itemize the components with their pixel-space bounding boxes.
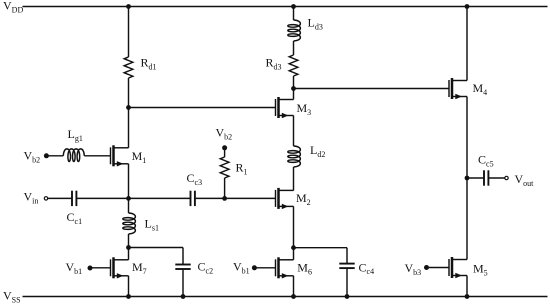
terminal dot Vb3 — [424, 265, 429, 270]
wire M7 drain to node C — [128, 248, 130, 260]
svg-text:Cc4: Cc4 — [359, 260, 375, 276]
wire Ls1 to node C — [128, 234, 130, 248]
terminal dot Vb2 (mid) — [222, 145, 227, 150]
svg-text:Ls1: Ls1 — [145, 217, 159, 233]
wire VDD to Ld3 — [293, 7, 295, 21]
wire VDD rail — [23, 6, 548, 8]
terminal dot Vb1 (mid) — [252, 265, 257, 270]
junction Cc4 / VSS — [345, 294, 350, 299]
inductor Ld3 — [288, 20, 301, 41]
junction node A (Rd1 / M1 drain / M3 gate) — [126, 105, 131, 110]
svg-text:Vin: Vin — [24, 190, 39, 206]
junction node D (Rd3 / M3 drain / M4 gate) — [291, 86, 296, 91]
svg-text:M5: M5 — [473, 262, 488, 278]
wire M7 source to VSS — [128, 276, 130, 297]
wire M5 source to VSS — [466, 276, 468, 297]
transistor M7 — [111, 257, 129, 278]
wire VDD to Rd1 — [128, 7, 130, 58]
capacitor Cc1 — [72, 191, 76, 206]
wire Cc3 to node E — [195, 197, 225, 199]
resistor Rd1 — [124, 57, 133, 78]
svg-text:Vb2: Vb2 — [24, 149, 41, 165]
wire M1 source down to Vin node — [128, 164, 130, 199]
terminal Vout — [505, 176, 508, 179]
wire node G to Cc5 — [467, 177, 484, 179]
junction VDD / Ld3 — [291, 4, 296, 9]
junction node G (M4 source / Cc5 / M5 drain) — [465, 176, 470, 181]
transistor M6 — [276, 257, 294, 278]
svg-text:Vb1: Vb1 — [66, 260, 83, 276]
svg-text:Vb1: Vb1 — [233, 260, 250, 276]
transistor M4 — [449, 78, 467, 99]
wire node F to Cc4 — [294, 247, 348, 249]
junction M7 source / VSS — [126, 294, 131, 299]
wire Vb1 to M7 gate — [90, 267, 111, 269]
svg-text:Rd1: Rd1 — [141, 56, 157, 72]
svg-text:Ld2: Ld2 — [310, 143, 325, 159]
wire VDD to M4 drain — [466, 7, 468, 81]
svg-text:Cc2: Cc2 — [198, 260, 214, 276]
wire M6 source to VSS — [293, 276, 295, 297]
svg-text:Vb2: Vb2 — [216, 126, 233, 142]
wire Cc4 bottom lead — [346, 268, 348, 296]
wire Vb3 to M5 gate — [427, 267, 450, 269]
transistor M3 — [276, 97, 294, 118]
capacitor Cc2 — [175, 265, 190, 270]
wire node B to Ls1 — [128, 198, 130, 213]
junction node C (Ls1 / M7 drain / Cc2) — [126, 245, 131, 250]
wire node D to M4 gate — [294, 88, 450, 90]
wire M3 source to Ld2 — [293, 116, 295, 147]
svg-text:Rd3: Rd3 — [266, 56, 282, 72]
wire Vb1 to M6 gate — [254, 267, 275, 269]
junction M5 source / VSS — [465, 294, 470, 299]
svg-text:Lg1: Lg1 — [68, 127, 83, 143]
wire Vb2 to R1 — [224, 148, 226, 157]
terminal dot Vb1 (left) — [88, 266, 93, 271]
wire Rd3 to node D — [293, 76, 295, 89]
svg-text:M6: M6 — [297, 261, 312, 277]
wire Cc5 to Vout — [488, 177, 504, 179]
inductor Lg1 — [63, 149, 84, 162]
svg-text:M7: M7 — [132, 260, 147, 276]
capacitor Cc5 — [484, 170, 488, 185]
wire node D to M3 drain — [293, 89, 295, 100]
junction node F (M2 source / M6 drain / Cc4) — [291, 245, 296, 250]
svg-text:Vout: Vout — [515, 172, 535, 188]
capacitor Cc3 — [191, 191, 195, 206]
wire Cc4 top lead — [346, 248, 348, 264]
wire node B to Cc3 — [129, 197, 191, 199]
svg-text:M1: M1 — [132, 149, 147, 165]
svg-text:VSS: VSS — [3, 289, 21, 305]
junction Cc2 / VSS — [181, 294, 186, 299]
wire Ld2 to M2 drain — [293, 167, 295, 191]
svg-text:M4: M4 — [473, 81, 488, 97]
wire node A to M3 gate — [129, 107, 276, 109]
inductor Ls1 — [123, 213, 136, 234]
wire Vb2 to Lg1 — [46, 155, 63, 157]
wire Rd1 to node A — [128, 78, 130, 108]
wire M2 source to node F — [293, 206, 295, 247]
wire Cc2 top lead — [182, 248, 184, 265]
junction VDD / Rd1 — [126, 4, 131, 9]
svg-text:Cc3: Cc3 — [187, 171, 203, 187]
svg-text:M3: M3 — [297, 101, 312, 117]
wire M4 source to node G — [466, 97, 468, 179]
wire Ld3 to Rd3 — [293, 41, 295, 55]
resistor R1 — [220, 157, 229, 178]
wire Cc2 bottom lead — [182, 269, 184, 297]
wire Vin to Cc1 — [48, 197, 72, 199]
transistor M1 — [111, 145, 129, 166]
wire node F to M6 drain — [293, 248, 295, 260]
svg-text:M2: M2 — [296, 191, 311, 207]
terminal dot Vb2 (left) — [44, 153, 49, 158]
svg-text:Cc5: Cc5 — [478, 153, 494, 169]
svg-text:Ld3: Ld3 — [308, 16, 323, 32]
wire Cc1 to node B — [76, 197, 128, 199]
terminal Vin — [44, 197, 47, 200]
svg-text:Vb3: Vb3 — [405, 261, 422, 277]
svg-text:R1: R1 — [236, 161, 248, 177]
wire R1 to node E — [224, 178, 226, 198]
junction VDD / M4 drain — [465, 4, 470, 9]
junction M6 source / VSS — [291, 294, 296, 299]
wire node C to Cc2 — [129, 247, 184, 249]
capacitor Cc4 — [339, 264, 354, 269]
svg-text:VDD: VDD — [3, 0, 23, 14]
resistor Rd3 — [289, 55, 298, 76]
wire VSS rail — [23, 296, 548, 298]
wire node E to M2 gate — [225, 197, 276, 199]
transistor M2 — [276, 188, 294, 209]
wire node A to M1 drain — [128, 108, 130, 148]
junction node E (R1 / Cc3 / M2 gate) — [222, 196, 227, 201]
wire Lg1 to M1 gate — [84, 155, 110, 157]
transistor M5 — [449, 257, 467, 278]
junction node B (M1 source / Ls1 / Cc3) — [126, 196, 131, 201]
wire node G to M5 drain — [466, 178, 468, 260]
svg-text:Cc1: Cc1 — [67, 210, 83, 226]
inductor Ld2 — [288, 146, 301, 167]
